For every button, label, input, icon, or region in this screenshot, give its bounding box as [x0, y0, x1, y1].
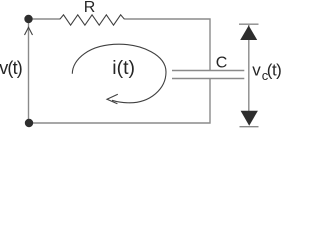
- svg-text:(t): (t): [267, 60, 282, 79]
- svg-text:R: R: [84, 0, 96, 16]
- svg-text:v(t): v(t): [0, 58, 22, 78]
- svg-text:C: C: [216, 55, 228, 72]
- svg-text:i(t): i(t): [112, 57, 135, 79]
- svg-text:v: v: [252, 60, 261, 79]
